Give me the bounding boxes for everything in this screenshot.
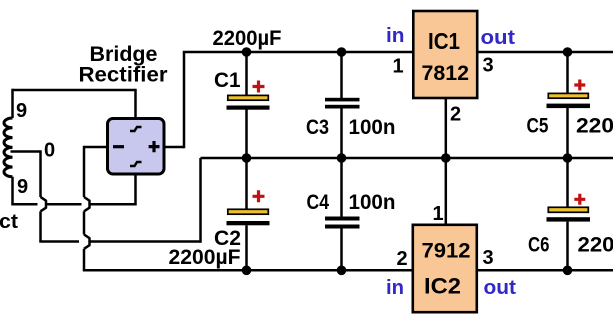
- svg-text:ct: ct: [0, 211, 18, 233]
- wire: bridge bottom AC lead: [134, 175, 137, 206]
- bridge rectifier: left (-) output stub: [84, 146, 107, 149]
- svg-text:in: in: [386, 25, 405, 47]
- wire: top rail right (IC1 pin3 out): [477, 51, 613, 54]
- wire: center tap vertical down: [39, 150, 42, 197]
- svg-text:C5: C5: [527, 115, 549, 138]
- wire: center tap horizontal from coil: [11, 150, 41, 153]
- svg-text:220: 220: [576, 115, 613, 138]
- svg-text:C3: C3: [306, 116, 329, 139]
- wire: bottom-9 horizontal to bridge bottom lead: [11, 203, 135, 206]
- wire: bridge + riser up to top rail: [183, 52, 186, 148]
- wire: transformer top lead horizontal: [12, 89, 136, 92]
- node: bottom rail / C4 junction: [337, 266, 347, 276]
- wire hop: bridge- vertical jumps bottom-9 wire: [84, 197, 90, 211]
- svg-text:100n: 100n: [349, 116, 396, 139]
- capacitor C4: bottom plate: [325, 225, 360, 229]
- IC2 7912 regulator body: [413, 225, 477, 312]
- node: 0V rail / C3-C4 junction: [337, 153, 347, 163]
- bridge rectifier BR1 body: [108, 119, 165, 175]
- node: 0V rail / C5-C6 junction: [563, 153, 573, 163]
- wire: transformer bottom lead vertical: [11, 177, 14, 205]
- svg-text:out: out: [484, 277, 517, 299]
- label + (C2 polarity): [253, 190, 265, 202]
- node: top rail / C1 junction: [242, 47, 252, 57]
- capacitor C6: - plate: [547, 217, 591, 221]
- svg-text:0: 0: [44, 140, 55, 162]
- svg-text:out: out: [481, 27, 516, 49]
- wire: bridge - vertical down to bottom rail: [83, 146, 86, 197]
- svg-text:3: 3: [482, 247, 493, 269]
- capacitor C5 lead: [566, 52, 569, 158]
- bridge symbol: + (right output): [149, 141, 160, 152]
- svg-text:C4: C4: [307, 191, 330, 214]
- label + (C5 polarity): [574, 80, 585, 91]
- svg-text:9: 9: [16, 100, 27, 122]
- wire: transformer top terminal vertical: [11, 89, 14, 118]
- bridge rectifier: right (+) output stub: [165, 146, 184, 149]
- svg-text:2200µF: 2200µF: [213, 27, 282, 50]
- capacitor C3 (100n): top plate: [325, 98, 360, 102]
- capacitor C4 (100n): top plate: [325, 217, 360, 221]
- wire hop: ct vertical jumps bottom-9 wire: [41, 197, 47, 211]
- node: top rail / C3 junction: [337, 47, 347, 57]
- svg-text:2: 2: [396, 248, 407, 270]
- bridge symbol: - (left output): [113, 145, 124, 148]
- transformer T1 secondary winding (coil 9-0-9): [4, 118, 13, 177]
- svg-text:C1: C1: [214, 69, 241, 92]
- label + (C6 polarity): [574, 194, 585, 205]
- capacitor C6 lead: [566, 158, 569, 270]
- svg-text:IC1: IC1: [428, 28, 460, 54]
- svg-text:7812: 7812: [422, 62, 470, 85]
- capacitor C5 (220uF electrolytic): + plate: [548, 93, 588, 98]
- capacitor C3 lead: [340, 52, 343, 158]
- svg-text:100n: 100n: [349, 191, 396, 214]
- capacitor C3: bottom plate: [325, 105, 360, 109]
- capacitor C1 lead: [245, 52, 248, 158]
- svg-text:IC2: IC2: [424, 274, 461, 299]
- label + (C1 polarity): [253, 81, 265, 93]
- node: bottom rail / C6 junction: [563, 266, 573, 276]
- node: 0V rail / IC ground junction: [441, 153, 451, 163]
- node: top rail / C5 junction: [563, 47, 573, 57]
- wire: 0V middle rail: [201, 157, 613, 160]
- wire: bottom rail right (IC2 pin3 out): [477, 269, 613, 272]
- capacitor C5: - plate: [547, 104, 591, 109]
- wire: IC1 pin2 / IC2 pin1 ground vertical: [445, 99, 448, 225]
- wire: bottom rail left (bridge- to IC2 pin2 in): [83, 269, 413, 272]
- node: 0V rail / C1-C2 junction: [242, 153, 252, 163]
- capacitor C1 (2200uF electrolytic): + plate: [228, 95, 268, 100]
- wire: center tap horizontal run to 0V riser: [39, 240, 79, 243]
- svg-text:220: 220: [578, 234, 613, 257]
- bridge symbol: ~ (bottom AC input): [130, 162, 142, 166]
- svg-text:Rectifier: Rectifier: [79, 64, 168, 87]
- wire: 0V riser up to middle rail: [199, 158, 202, 243]
- bridge symbol: ~ (top AC input): [130, 127, 142, 131]
- capacitor C4 lead: [340, 158, 343, 270]
- svg-text:in: in: [386, 277, 404, 299]
- IC1 7812 regulator body: [413, 11, 477, 98]
- capacitor C2 (2200uF electrolytic): + plate: [228, 209, 268, 214]
- svg-text:3: 3: [482, 55, 493, 77]
- wire: riser from top lead down into bridge top (~): [134, 89, 137, 117]
- node: bottom rail / C2 junction: [242, 266, 252, 276]
- capacitor C2: - plate: [227, 221, 270, 225]
- svg-text:2: 2: [450, 104, 461, 126]
- capacitor C1: - plate: [227, 106, 270, 110]
- svg-text:7912: 7912: [422, 240, 471, 263]
- capacitor C6 (220uF electrolytic): + plate: [548, 207, 588, 212]
- wire hop: bridge- vertical jumps center-tap wire: [84, 235, 90, 249]
- svg-text:1: 1: [392, 56, 403, 78]
- svg-text:9: 9: [17, 176, 28, 198]
- svg-text:1: 1: [432, 203, 443, 225]
- svg-text:2200µF: 2200µF: [169, 246, 241, 269]
- capacitor C2 lead: [245, 158, 248, 270]
- wire: top rail left (to IC1 pin1 in): [183, 51, 413, 54]
- svg-text:C6: C6: [528, 234, 550, 257]
